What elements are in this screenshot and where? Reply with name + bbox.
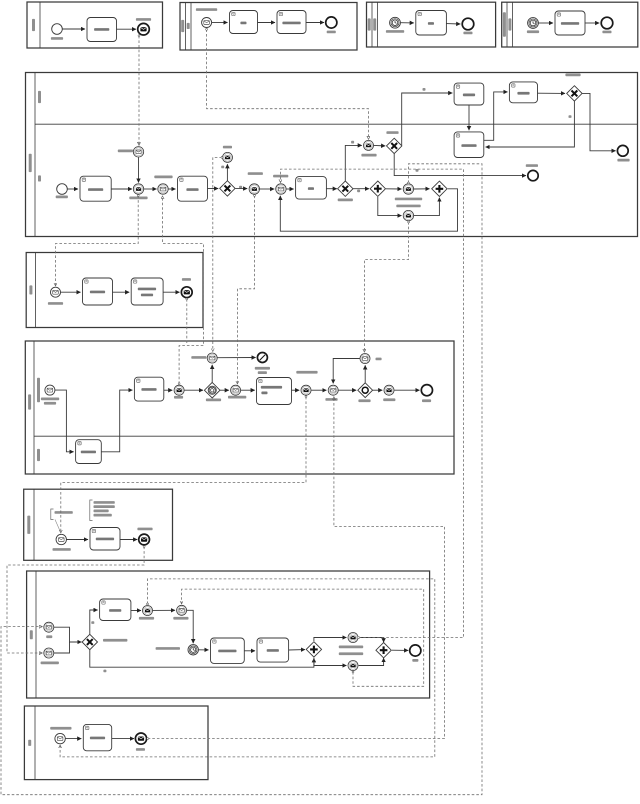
sequence flow P6 返工->gw xyxy=(54,627,81,642)
pool P5 维修监督专员 xyxy=(24,489,173,560)
annotation 汇总说明 xyxy=(90,500,93,521)
sequence flow P2 核验账单->重新gw xyxy=(538,92,566,94)
label 是 xyxy=(239,186,242,189)
end event P2 维修结束 b xyxy=(617,145,628,156)
start event B 收到回访申请 xyxy=(202,18,212,28)
pool B 回访流程 xyxy=(180,3,357,51)
sequence flow P4 evgw->业主已取消 xyxy=(211,365,213,383)
pool D labels xyxy=(503,12,506,36)
message flow M9 返工(维修工)->P6.返工 xyxy=(1,164,482,795)
task P2 发起订单 xyxy=(454,83,484,105)
annotation 竣工的汇总单 xyxy=(51,509,54,520)
task P6 确认完成 xyxy=(257,638,289,662)
sequence flow A start->task xyxy=(62,28,85,30)
start event P2 需要维修 xyxy=(57,184,68,195)
sequence flow P2 发起订单->确认已付款 xyxy=(468,105,470,130)
pool C 催缴 xyxy=(367,2,496,47)
label 维修已发送 xyxy=(118,150,133,153)
sequence flow P5 t->end xyxy=(120,539,137,541)
message flow M13 P7.end->P4.维修完成 xyxy=(148,397,445,739)
sequence flow P2 join->进行中 loop xyxy=(280,189,457,231)
sequence flow P2 返工1->join xyxy=(414,188,430,190)
sequence flow P4 开始->确认已完成 xyxy=(101,390,132,452)
message flow M1 A.end->维修已发送 xyxy=(138,36,140,145)
lane P4 流程经理 label xyxy=(37,449,40,461)
start event A 收到退租 xyxy=(52,24,63,35)
sequence flow P2 gw->已确认维修 xyxy=(235,187,247,189)
sequence flow P2 检查->维修确认gw xyxy=(326,188,336,190)
intermediate event P2 业主已付款 xyxy=(364,140,374,150)
label 查看需要申请材料 xyxy=(103,639,127,642)
gateway P2 fork + xyxy=(370,181,385,196)
sequence flow P3 t1->t2 xyxy=(113,291,130,293)
message flow M14 工单已汇总->P5.start xyxy=(61,397,306,533)
label 维修完成(报修) xyxy=(339,646,363,649)
task B 回访 xyxy=(230,11,258,34)
label 维修受理中 xyxy=(206,399,221,402)
sequence flow P2 重新gw->确认已付款(否) xyxy=(486,101,575,147)
sequence flow P2 规划->递交 xyxy=(111,188,132,190)
message flow M3 已发单(P4)->待申领报修单 xyxy=(163,196,204,384)
end event C 已催办 xyxy=(462,18,474,30)
sequence flow P4 s->开始 xyxy=(55,390,74,452)
intermediate event P2 已确认维修 xyxy=(249,184,259,194)
intermediate event P2 维修单已递交 xyxy=(133,184,143,194)
gateway P2 维修确认 X xyxy=(338,181,353,196)
task D 统计和编制信息 xyxy=(555,11,585,35)
sequence flow P6 业主->join xyxy=(359,658,384,665)
sequence flow C t->end xyxy=(446,23,460,25)
sequence flow P2 确认已付款->核验账单 xyxy=(484,92,508,140)
pool C labels xyxy=(368,18,371,30)
label 收到材料申请单 xyxy=(50,727,71,730)
end event P3 已发单 xyxy=(181,287,192,298)
pool P6 维修工 xyxy=(27,571,430,698)
label 工单已收到汇总 xyxy=(296,371,317,374)
start event P3 收到报修单 xyxy=(51,287,61,297)
sequence flow P6 gw->申请材料(是) xyxy=(90,610,98,634)
sequence flow P5 s->t xyxy=(67,539,89,541)
message flow M10 维修完成(报修)->维修进行中 xyxy=(281,169,464,637)
timer event P6 等待材料 xyxy=(188,645,198,655)
sequence flow P2 gw->已回访 xyxy=(226,164,228,181)
sequence flow P2 维修确认->付款(是) xyxy=(345,145,362,181)
start event P5 全部维修需求 xyxy=(56,534,66,544)
label 否 xyxy=(103,670,106,673)
intermediate event P2 返工(外委) xyxy=(403,210,413,220)
label 是 xyxy=(351,141,354,144)
intermediate event P4 检查通过 xyxy=(384,385,394,395)
lane P4 服务人员 label xyxy=(37,378,40,402)
intermediate event P2 维修已发送 xyxy=(133,147,143,157)
intermediate event P6 接收工作分配 xyxy=(44,648,54,658)
intermediate event P6 返工 xyxy=(44,622,54,632)
label 否 xyxy=(569,115,572,118)
end event P4 已维修 xyxy=(421,385,432,396)
sequence flow D t->end xyxy=(585,22,599,24)
start event P4 收到报修单 xyxy=(45,385,55,395)
task P4 填写工程单汇总表 xyxy=(257,378,292,405)
intermediate event P4 竣工 xyxy=(360,354,370,364)
sequence flow P2 维修确认->fork(否) xyxy=(353,188,370,190)
intermediate event P6 材料已申请 xyxy=(143,606,153,616)
gateway P2 需重新申报 X xyxy=(220,181,235,196)
message flow M15 工作已分配->接收工作分配 xyxy=(7,547,144,654)
label 返工(外委) xyxy=(396,205,420,208)
sequence flow P4 业主已取消->end xyxy=(217,357,255,359)
end event P4 已取消 end xyxy=(257,353,267,363)
intermediate event P6 维修完成(报修) xyxy=(348,633,358,643)
task C 催办 xyxy=(416,11,447,36)
sequence flow P4 填写->工单已汇总 xyxy=(292,389,300,391)
label 是 xyxy=(91,621,94,624)
task P6 申请材料 xyxy=(100,599,131,621)
task P7 确认已配发 xyxy=(83,724,111,750)
gateway P6 join + xyxy=(376,643,391,658)
sequence flow P2 已确认->进行中 xyxy=(259,188,275,190)
pool P5 label xyxy=(27,516,30,534)
label 维修进行中 xyxy=(273,175,288,178)
task P2 确认维修 xyxy=(178,176,208,201)
sequence flow P3 t2->end xyxy=(163,291,179,293)
sequence flow P4 工单->维修完成 xyxy=(311,389,326,391)
pool P2 label xyxy=(29,154,32,172)
label 工作已分配 xyxy=(137,528,152,531)
sequence flow P2 返工2->join xyxy=(414,198,440,216)
label 业主已付款 xyxy=(361,154,376,157)
sequence flow P2 重新gw->维修结束(是) xyxy=(582,93,616,150)
lane P2 项目经理 label xyxy=(38,91,41,103)
label 竣工 xyxy=(376,358,382,361)
sequence flow P3 s->t1 xyxy=(61,291,81,293)
gateway P2 需要付款 X xyxy=(387,138,402,153)
end event D 已统计 xyxy=(601,17,613,29)
task P2 规划维修单 xyxy=(80,176,111,201)
label 已回访 xyxy=(223,146,232,149)
intermediate event P4 维修完成 xyxy=(328,385,338,395)
start event P7 收到材料申请单 xyxy=(55,733,65,743)
pool P7 仓库 xyxy=(24,706,208,780)
sequence flow C s->t xyxy=(401,22,414,24)
sequence flow P4 检查通过->end xyxy=(394,389,419,391)
sequence flow P6 申请材料->已申请 xyxy=(131,609,141,611)
gateway P6 查看材料 X xyxy=(82,634,97,649)
pool A 租赁管理 xyxy=(27,2,163,48)
sequence flow P2 fork->返工2 xyxy=(378,197,402,216)
sequence flow P7 t->end xyxy=(112,738,134,740)
task P3 发单人填写部门登记表 xyxy=(131,278,163,305)
sequence flow P6 fork->业主 xyxy=(314,658,347,666)
gateway P6 fork + xyxy=(306,642,321,657)
task P3 部门主任确认 xyxy=(83,278,113,305)
intermediate event P6 维修完成(业主) xyxy=(348,661,358,671)
intermediate event P4 工单已收到汇总 xyxy=(301,385,311,395)
sequence flow P4 维修完成->gw xyxy=(338,389,356,391)
sequence flow P6 gw->merge(否) xyxy=(90,650,314,667)
pool P3 行政部 xyxy=(26,253,203,328)
label 维修结束 xyxy=(526,164,538,167)
sequence flow P6 已发放->timer xyxy=(187,610,193,643)
end event P6 结束 xyxy=(410,645,421,656)
message flow M7 已确认维修->业主确认维修 xyxy=(237,196,254,384)
intermediate event P2 已回访 xyxy=(223,152,233,162)
task P2 检查 xyxy=(296,177,327,200)
sequence flow B s->t1 xyxy=(212,22,228,24)
pool B labels xyxy=(181,20,184,32)
sequence flow P4 已发单->evgw xyxy=(184,389,203,391)
sequence flow P4 确认->填写汇总 xyxy=(241,389,255,391)
sequence flow P6 确认到达->确认完成 xyxy=(244,650,255,652)
intermediate event P2 维修进行中 xyxy=(276,184,286,194)
sequence flow P4 gw->检查通过 xyxy=(373,389,383,391)
label 检查结果 xyxy=(358,399,370,402)
end event P5 工作已分配 xyxy=(139,534,150,545)
message flow M11 维修完成(业主)->材料已发放 xyxy=(182,589,424,686)
annotation connector xyxy=(55,520,61,533)
sequence flow P2 已付款->需要付款gw xyxy=(374,144,386,147)
sequence flow P2 确认维修->gw xyxy=(208,188,219,190)
sequence flow P4 竣工->维修完成 xyxy=(333,359,360,384)
sequence flow P2 进行中->检查 xyxy=(286,188,294,190)
task P4 确认已完成 xyxy=(134,377,163,401)
pool P2 维修处理 xyxy=(26,73,638,237)
task P2 确认已付款 xyxy=(454,132,484,158)
sequence flow P6 确认完成->fork xyxy=(289,649,305,651)
end event P7 已发放 xyxy=(135,733,146,744)
label 需要付款 xyxy=(386,131,398,134)
sequence flow P2 需要付款->发起订单(是) xyxy=(402,93,453,145)
message flow M8 返工(外委)->竣工 xyxy=(364,222,408,352)
message flow M12 材料已申请->P7.start xyxy=(60,579,435,757)
end event B 已回访 xyxy=(326,17,337,28)
gateway P4 event gw xyxy=(204,382,220,398)
gateway P2 重新已付款 X xyxy=(567,86,582,101)
label 维修结束 xyxy=(617,159,629,162)
sequence flow P6 timer->确认到达 xyxy=(199,649,209,651)
sequence flow P6 报修->join xyxy=(359,638,384,643)
intermediate event P2 待申领报修单 xyxy=(158,184,168,194)
timer event C 每隔一段时间 xyxy=(390,17,401,28)
lane P2 业主 label xyxy=(38,175,41,181)
label 业主已取消 xyxy=(191,356,206,359)
task A 退租检查单 xyxy=(87,18,117,42)
sequence flow D s->t xyxy=(539,22,553,24)
intermediate event P4 业主确认维修 xyxy=(231,385,241,395)
task P6 确认到达现场 xyxy=(211,638,245,663)
pool P4 客户服务中心 xyxy=(25,341,454,474)
intermediate event P6 材料已发放 xyxy=(177,605,187,615)
label 返工(维修工) xyxy=(395,198,422,201)
sequence flow P2 s->规划 xyxy=(67,188,78,190)
sequence flow P7 s->t xyxy=(65,738,81,740)
sequence flow P4 gw->竣工 up xyxy=(364,365,366,382)
message flow M4 已回访->业主已取消 xyxy=(213,157,222,351)
gateway P4 检查结果 O xyxy=(358,383,373,398)
label 是 xyxy=(423,88,426,91)
label 等待材料到货 xyxy=(156,647,180,650)
gateway P2 join + xyxy=(432,181,447,196)
sequence flow P2 递交->待申领 xyxy=(144,188,157,190)
sequence flow P6 已申请->已发放 xyxy=(153,609,175,611)
intermediate event P4 已发单 xyxy=(174,385,184,395)
sequence flow P6 fork->报修 xyxy=(314,638,347,642)
label 待申领报修单 xyxy=(154,176,172,179)
label 否 xyxy=(221,166,224,169)
label 已确认维修 xyxy=(248,172,263,175)
sequence flow A task->end xyxy=(117,28,137,30)
message flow M2 业主已付款->B.start xyxy=(207,29,369,139)
label 否 xyxy=(357,190,360,193)
sequence flow P2 fork->返工1 xyxy=(386,188,402,190)
pool P6 label xyxy=(30,630,33,639)
sequence flow P2 已发送->递交 xyxy=(138,157,140,182)
sequence flow B t1->t2 xyxy=(258,22,276,24)
task P2 核验账单 xyxy=(509,82,537,103)
label A end xyxy=(136,18,151,21)
task P5 主管分配工作 xyxy=(90,528,120,551)
sequence flow P6 接收->gw xyxy=(54,642,70,653)
label 否 xyxy=(416,169,419,172)
label 已发单 xyxy=(182,278,191,281)
sequence flow P2 待申领->确认维修 xyxy=(168,188,175,190)
pool A label xyxy=(32,19,35,31)
end event P2 维修结束 a xyxy=(528,170,538,180)
pool D 统计报表 xyxy=(502,2,638,47)
sequence flow B t2->end xyxy=(306,22,324,24)
label 维修确认? xyxy=(338,199,353,202)
sequence flow P2 需要付款->维修结束(否) xyxy=(394,154,526,176)
label 重新已付款 xyxy=(565,74,580,77)
message flow M6 P3.end->P4 xyxy=(186,299,188,345)
intermediate event P2 返工(维修工) xyxy=(403,184,413,194)
timer event D 每年一次 xyxy=(528,18,539,29)
intermediate event P4 业主已取消 xyxy=(207,353,217,363)
sequence flow P4 确认已完成->已发单 xyxy=(164,389,173,391)
task B 填写回访记录单 xyxy=(277,11,306,34)
task P4 维修项目开始 xyxy=(76,440,102,464)
pool P3 label xyxy=(29,285,32,294)
pool P4 label xyxy=(28,394,31,409)
message flow M5 维修单已递交->P3.start xyxy=(56,196,139,286)
pool P7 label xyxy=(28,740,31,746)
sequence flow P4 evgw->业主确认维修 xyxy=(220,389,229,391)
label 维修完成(业主) xyxy=(339,652,363,655)
sequence flow P6 join->end xyxy=(392,649,408,651)
end event A 数据已发送 xyxy=(138,23,150,35)
